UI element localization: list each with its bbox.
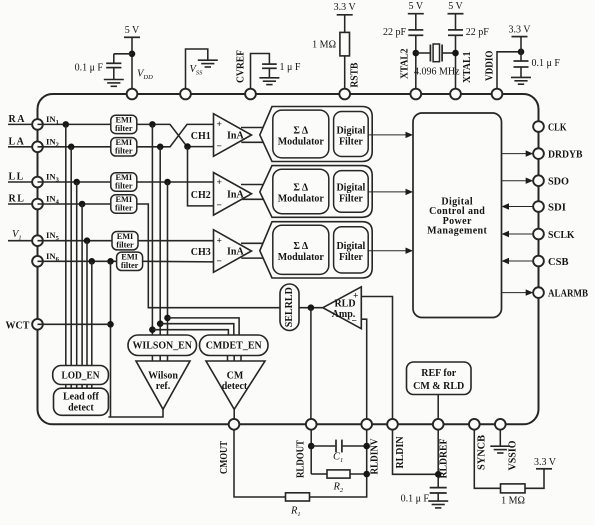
svg-text:1 MΩ: 1 MΩ [312, 40, 336, 51]
wire CH2 filter to digital control with arrow [368, 189, 413, 195]
svg-text:Filter: Filter [339, 136, 363, 147]
pin VSSIO [495, 419, 506, 430]
svg-text:3.3 V: 3.3 V [334, 2, 357, 13]
digital filter CH2 [334, 171, 369, 213]
pin RSTB [339, 89, 350, 100]
wire EMI4 out to SELRLD [137, 204, 280, 308]
wire [113, 68, 115, 80]
wire to C 0.1uF [114, 53, 132, 55]
ground for VSSIO [490, 446, 510, 453]
wire [437, 493, 439, 501]
wire InA output pair into channel 2 block [241, 185, 263, 200]
svg-text:22 pF: 22 pF [383, 27, 407, 38]
wire IN3 to EMI filter [38, 181, 111, 183]
svg-text:WCT: WCT [6, 320, 30, 331]
wire LA bus down to WILSON_EN [159, 147, 161, 335]
wire WCT vertical [110, 261, 112, 417]
supply 3.3V at SYNCB pullup [534, 457, 557, 469]
supply 3.3V for VDDIO [508, 25, 531, 37]
svg-text:+: + [217, 237, 222, 247]
svg-text:filter: filter [115, 182, 133, 191]
pin ALARMB [533, 287, 544, 298]
svg-text:RLDOUT: RLDOUT [296, 440, 307, 478]
junction on IN line [73, 179, 80, 186]
wire electrode V1 stub [8, 240, 38, 242]
wire to C1 [311, 445, 335, 447]
wire VSSIO to ground [499, 429, 501, 446]
pin IN5 [32, 235, 43, 246]
wire CM detect to CMOUT pin [233, 409, 235, 419]
svg-text:InA: InA [227, 247, 244, 258]
wire IN6 to EMI filter [38, 260, 117, 262]
pin CSB [533, 256, 544, 267]
svg-text:filter: filter [121, 261, 139, 270]
wire [415, 14, 417, 30]
resistor 1Mohm at SYNCB [501, 484, 526, 493]
svg-text:4.096 MHz: 4.096 MHz [414, 67, 460, 78]
svg-text:3.3 V: 3.3 V [508, 25, 531, 36]
pin VSS [180, 89, 191, 100]
EMI filter 4 [111, 195, 137, 213]
svg-text:Filter: Filter [339, 252, 363, 263]
pin SYNCB [469, 419, 480, 430]
svg-text:Digital: Digital [336, 125, 365, 136]
svg-text:RLDINV: RLDINV [370, 438, 381, 475]
svg-text:−: − [217, 201, 222, 211]
svg-text:CLK: CLK [548, 122, 567, 133]
CMDET_EN enable box [200, 335, 269, 356]
capacitor 1uF at CVREF [262, 64, 277, 68]
WILSON_EN enable box [128, 335, 197, 356]
svg-text:CVREF: CVREF [236, 50, 247, 83]
junction RLDREF [435, 471, 442, 478]
svg-text:22 pF: 22 pF [466, 27, 490, 38]
wire [520, 37, 522, 52]
wire branch to CMDET_EN [152, 330, 228, 335]
wire tap to lead-off detect [81, 204, 83, 366]
svg-text:ALARMB: ALARMB [548, 288, 588, 299]
wire RLD plus to RLDIN pin [361, 297, 392, 420]
wire XTAL2 [415, 35, 417, 94]
node RLD output [308, 304, 315, 311]
REF for CM and RLD box [407, 362, 472, 395]
pin XTAL2 [410, 89, 421, 100]
pin SDI [533, 201, 544, 212]
wire stub into lead-off detect [70, 385, 72, 389]
svg-text:ref.: ref. [156, 381, 171, 392]
svg-text:SDI: SDI [548, 202, 566, 213]
pin SCLK [533, 229, 544, 240]
wire EMI1 out to CH1 minus (cross) [137, 124, 214, 146]
junction on IN line [84, 237, 91, 244]
wire RLDIN to RLDREF node [393, 429, 439, 474]
svg-text:filter: filter [115, 146, 133, 155]
wire Wilson ref output to WCT node [108, 409, 163, 417]
SELRLD switch box [280, 284, 299, 331]
Wilson reference amplifier (triangle) [136, 361, 190, 409]
wire EMI5 out to CH3 plus [138, 240, 214, 242]
sigma-delta modulator CH1 [273, 110, 329, 158]
junction and branch wires to CMDET [149, 326, 156, 333]
node XTAL2 [413, 50, 420, 57]
EMI filter 3 [111, 173, 137, 191]
svg-text:Modulator: Modulator [278, 193, 325, 204]
wire RA tap to CH2 minus [188, 147, 214, 206]
pin IN6 [32, 256, 43, 267]
wire SYNCB down to resistor [474, 429, 500, 488]
pin RLDINV [361, 419, 372, 430]
IC body outline [38, 94, 539, 424]
svg-text:XTAL1: XTAL1 [462, 52, 473, 84]
svg-text:RSTB: RSTB [350, 62, 361, 87]
svg-text:CM: CM [227, 371, 244, 382]
pin IN3 [32, 177, 43, 188]
svg-text:WILSON_EN: WILSON_EN [132, 341, 192, 352]
wire ALARMB output arrow [502, 289, 534, 295]
svg-text:XTAL2: XTAL2 [400, 49, 411, 80]
junction R2 right [363, 471, 370, 478]
wire LL bus down to WILSON_EN [167, 182, 169, 335]
wire stub into CM detect [227, 356, 229, 362]
junction on IN line [63, 121, 70, 128]
supply 5V for XTAL2 cap [408, 1, 424, 14]
wire branch to CMDET_EN [168, 318, 240, 335]
wire resistor to 3.3V [525, 469, 544, 489]
LOD_EN enable box [53, 366, 109, 385]
wire electrode LL stub [8, 181, 38, 183]
pin RLDOUT [306, 419, 317, 430]
supply 3.3V for RSTB [334, 2, 357, 15]
channel 3 converter block outline [260, 222, 372, 278]
pin SDO [533, 175, 544, 186]
wire IN4 to EMI filter [38, 203, 111, 205]
node XTAL1 [452, 50, 459, 57]
wire stub into Wilson ref [159, 356, 161, 362]
wire to R2 [311, 473, 327, 475]
svg-text:1 μ F: 1 μ F [280, 62, 301, 73]
wire tap to lead-off detect [65, 124, 67, 365]
svg-text:REF for: REF for [421, 368, 456, 379]
svg-text:LA: LA [9, 136, 26, 147]
wire tap to lead-off detect [91, 261, 93, 365]
wire CSB input arrow [502, 258, 534, 264]
wire SDO output arrow [502, 178, 534, 184]
node VDD decoupling junction [129, 51, 136, 58]
pin VDDIO [492, 89, 503, 100]
pin RLDREF [433, 419, 444, 430]
svg-text:Management: Management [427, 225, 487, 236]
svg-text:5 V: 5 V [409, 1, 424, 12]
svg-text:Modulator: Modulator [278, 252, 325, 263]
wire IN2 to EMI filter [38, 146, 111, 148]
wire IN5 to EMI filter [38, 240, 113, 242]
wire stub into lead-off detect [65, 385, 67, 389]
svg-text:Σ Δ: Σ Δ [293, 182, 308, 193]
pin IN2 [32, 141, 43, 152]
pin XTAL1 [450, 89, 461, 100]
wire EMI2 out to CH1 plus (cross) [137, 124, 214, 146]
svg-text:Wilson: Wilson [148, 371, 178, 382]
wire R1 to RLDINV node [310, 429, 367, 497]
junction [157, 320, 164, 327]
svg-text:0.1 μ F: 0.1 μ F [401, 494, 430, 505]
svg-text:detect: detect [68, 403, 94, 414]
capacitor C1 [336, 440, 342, 453]
svg-text:filter: filter [115, 124, 133, 133]
lead-off detect box [54, 388, 109, 415]
junction on IN line [89, 258, 96, 265]
wire [268, 68, 270, 77]
CM detect amplifier (triangle) [206, 361, 265, 409]
wire stub into lead-off detect [86, 385, 88, 389]
junction CH1 minus tap [184, 143, 191, 150]
wire RLD minus to RLDINV pin [361, 319, 366, 419]
svg-text:3.3 V: 3.3 V [534, 457, 557, 468]
junction on IN line [68, 144, 75, 151]
ground for RLDREF cap [428, 501, 448, 508]
wire electrode RA stub [8, 123, 38, 125]
svg-text:+: + [217, 178, 222, 188]
svg-text:−: − [217, 257, 222, 267]
supply 5V for XTAL1 cap [448, 1, 464, 14]
resistor R2 [327, 470, 350, 478]
svg-text:1 MΩ: 1 MΩ [501, 496, 525, 507]
wire WCT pin to junction [38, 323, 111, 325]
wire electrode LA stub [8, 146, 38, 148]
svg-text:RLD: RLD [334, 299, 355, 310]
wire RLDREF down [437, 429, 439, 487]
wire SDI input arrow [502, 203, 534, 209]
wire InA output pair into channel 3 block [241, 243, 263, 258]
wire [344, 15, 346, 33]
wire [520, 52, 522, 61]
wire CVREF to cap [251, 54, 270, 95]
wire R2 to RLDINV [350, 473, 367, 475]
capacitor 0.1uF at VDDIO [514, 61, 529, 67]
wire XTAL1 [455, 35, 457, 94]
wire [455, 14, 457, 30]
svg-text:CMDET_EN: CMDET_EN [206, 341, 263, 352]
op-amp CH2 InA [191, 173, 252, 216]
digital filter CH3 [334, 227, 369, 273]
svg-text:0.1 μ F: 0.1 μ F [75, 63, 104, 74]
capacitor 0.1uF at VDD [106, 63, 121, 67]
svg-text:RA: RA [9, 114, 26, 125]
svg-text:filter: filter [115, 204, 133, 213]
pin DRDYB [533, 148, 544, 159]
svg-text:LL: LL [9, 172, 25, 183]
sigma-delta modulator CH2 [273, 169, 329, 214]
wire stub into CM detect [233, 356, 235, 362]
svg-text:+: + [217, 120, 222, 130]
resistor R1 [286, 493, 310, 501]
wire DRDYB output arrow [502, 150, 534, 156]
EMI filter 5 [112, 232, 138, 250]
wire 5V to VDD pin [131, 37, 133, 94]
wire stub into CM detect [240, 356, 242, 362]
ground for VSS [198, 60, 218, 67]
svg-text:CM & RLD: CM & RLD [413, 381, 464, 392]
capacitor 22pF at XTAL2 [408, 30, 423, 35]
svg-text:VSSIO: VSSIO [507, 440, 518, 470]
svg-text:Digital: Digital [336, 241, 365, 252]
capacitor 0.1uF at RLDREF [430, 488, 447, 493]
wire tap to lead-off detect [76, 182, 78, 366]
pin CLK [533, 121, 544, 132]
junction IN6/WCT tap [107, 258, 114, 265]
wire EMI6 out to CH3 minus [143, 260, 214, 263]
wire stub into Wilson ref [151, 356, 153, 362]
wire VDDIO to 3.3V node [497, 52, 521, 94]
pin VDD [127, 89, 138, 100]
svg-text:CH2: CH2 [191, 190, 211, 201]
wire CH3 filter to digital control with arrow [368, 248, 413, 254]
crystal 4.096MHz [416, 44, 456, 62]
wire tap to lead-off detect [86, 241, 88, 366]
wire VSS to ground [186, 49, 208, 94]
wire EMI3 out to CH2 plus [137, 181, 214, 183]
svg-text:−: − [352, 317, 357, 327]
wire resistor to RSTB pin [344, 56, 346, 94]
svg-text:−: − [217, 142, 222, 152]
svg-text:CMOUT: CMOUT [219, 441, 230, 474]
op-amp CH1 InA [191, 114, 252, 157]
svg-text:5 V: 5 V [448, 1, 463, 12]
EMI filter 6 [117, 252, 143, 270]
wire SCLK input arrow [502, 231, 534, 237]
resistor 1Mohm pullup on RSTB [340, 32, 350, 56]
svg-text:Σ Δ: Σ Δ [293, 241, 308, 252]
svg-text:SDO: SDO [548, 177, 569, 188]
wire IN1 to EMI filter [38, 123, 111, 125]
wire stub into lead-off detect [76, 385, 78, 389]
wire stub into lead-off detect [91, 385, 93, 389]
wire branch to CMDET_EN [160, 324, 234, 335]
pin WCT [32, 319, 43, 330]
pin CMOUT [229, 419, 240, 430]
pin IN1 [32, 119, 43, 130]
op-amp RLD Amp [323, 287, 361, 329]
svg-text:SELRLD: SELRLD [284, 287, 295, 327]
capacitor 22pF at XTAL1 [448, 30, 463, 35]
svg-text:InA: InA [227, 131, 244, 142]
sigma-delta modulator CH3 [273, 225, 329, 274]
junction RA tap [149, 121, 156, 128]
svg-text:SYNCB: SYNCB [476, 435, 487, 470]
EMI filter 1 [111, 115, 137, 133]
ground for CVREF cap [259, 78, 279, 85]
pin IN4 [32, 199, 43, 210]
wire REF to RLDREF pin [437, 395, 439, 420]
wire C1 to RLDINV [343, 445, 367, 447]
wire node to RLDOUT pin [310, 308, 312, 420]
junction on IN line [79, 201, 86, 208]
wire [520, 67, 522, 77]
svg-text:RL: RL [9, 194, 26, 205]
junction WCT [107, 321, 114, 328]
junction LL tap [164, 179, 171, 186]
op-amp CH3 InA [191, 230, 252, 273]
wire RLDOUT down [310, 429, 312, 474]
wire tap to lead-off detect [70, 147, 72, 366]
digital control and power management block [413, 113, 502, 318]
supply 5V for VDD [124, 25, 140, 37]
wire stub into Wilson ref [167, 356, 169, 362]
pin CVREF [245, 89, 256, 100]
wire electrode RL stub [8, 203, 38, 205]
wire stub into lead-off detect [81, 385, 83, 389]
wire RA bus down to WILSON_EN [151, 124, 153, 335]
wire SELRLD to RLD amp [299, 307, 323, 309]
channel 2 converter block outline [260, 166, 372, 218]
svg-text:RLDIN: RLDIN [395, 436, 406, 469]
svg-text:SCLK: SCLK [548, 230, 575, 241]
svg-text:DRDYB: DRDYB [548, 149, 583, 160]
ground for VDDIO cap [511, 77, 531, 84]
svg-text:CH3: CH3 [191, 247, 211, 258]
svg-text:0.1 μ F: 0.1 μ F [532, 58, 561, 69]
svg-text:Σ Δ: Σ Δ [293, 125, 308, 136]
svg-text:CH1: CH1 [191, 131, 211, 142]
wire InA output pair into channel 1 block [241, 128, 263, 143]
digital filter CH1 [334, 112, 369, 157]
svg-text:VDDIO: VDDIO [485, 50, 496, 81]
pin RLDIN [387, 419, 398, 430]
svg-text:Modulator: Modulator [278, 136, 325, 147]
svg-text:CSB: CSB [548, 257, 569, 268]
svg-text:Filter: Filter [339, 193, 363, 204]
wire CH1 filter to digital control with arrow [368, 132, 413, 138]
wire [113, 54, 115, 63]
svg-text:LOD_EN: LOD_EN [62, 370, 101, 381]
EMI filter 2 [111, 138, 137, 156]
channel 1 converter block outline [260, 107, 372, 162]
junction C1 right [363, 443, 370, 450]
svg-text:detect: detect [222, 381, 248, 392]
wire CMOUT down to R1 [234, 429, 286, 497]
svg-text:Digital: Digital [336, 182, 365, 193]
node VDDIO supply [518, 49, 525, 56]
junction C1 left [308, 443, 315, 450]
svg-text:filter: filter [116, 240, 134, 249]
ground for VDD cap [104, 80, 124, 87]
junction LA tap [157, 144, 164, 151]
svg-text:5 V: 5 V [125, 25, 140, 36]
junction [164, 315, 171, 322]
svg-text:Lead off: Lead off [63, 392, 100, 403]
